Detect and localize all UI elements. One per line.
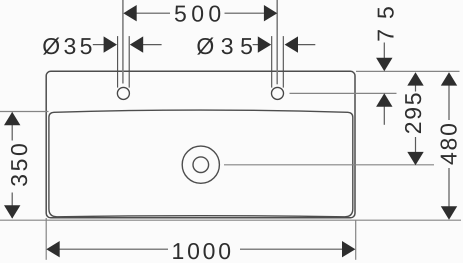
75 dim up arrowhead at tap axis bbox=[376, 93, 392, 106]
295 dimension line lower segment bbox=[415, 137, 417, 153]
500 dim left arrowhead bbox=[123, 5, 136, 21]
svg-text:75: 75 bbox=[372, 0, 398, 42]
left tap left tangent extension line bbox=[117, 36, 119, 88]
right tap centerline (500 dim extension) bbox=[276, 0, 278, 84]
1000 dim left vertical extension line bbox=[45, 218, 47, 260]
350 dim bottom arrowhead bbox=[4, 205, 20, 218]
svg-text:480: 480 bbox=[435, 121, 461, 165]
Ø35 right dim outer-left arrowhead bbox=[258, 36, 271, 52]
drain opening inner circle bbox=[193, 157, 209, 173]
1000 dim right arrowhead bbox=[342, 241, 355, 257]
basin inner bowl outline bbox=[49, 110, 353, 217]
basin outer outline (top view, 1000 x 480) bbox=[46, 71, 355, 218]
350 dim top arrowhead bbox=[4, 112, 20, 125]
svg-text:1000: 1000 bbox=[172, 238, 234, 263]
295 dim bottom arrowhead bbox=[407, 152, 423, 165]
Ø35 right dim tail right of tap bbox=[297, 44, 315, 46]
tap hole left (Ø35) bbox=[117, 87, 129, 99]
480 dimension line upper segment bbox=[448, 85, 450, 120]
front edge long extension line (350/480 dims) bbox=[0, 219, 461, 221]
1000 dimension line left segment bbox=[60, 248, 169, 250]
480 dim top arrowhead bbox=[441, 72, 457, 85]
1000 dim left arrowhead bbox=[46, 241, 59, 257]
right tap left tangent extension line bbox=[271, 36, 273, 88]
75 dim down arrowhead at rear edge bbox=[376, 58, 392, 71]
svg-text:350: 350 bbox=[6, 141, 32, 187]
295 dim top arrowhead bbox=[407, 72, 423, 85]
svg-text:Ø35: Ø35 bbox=[42, 33, 95, 59]
500 dim right arrowhead bbox=[264, 5, 277, 21]
75 dim tail below up-arrow bbox=[383, 106, 385, 125]
left tap right tangent extension line bbox=[128, 36, 130, 88]
bowl rear edge extension line (350 dim) bbox=[0, 111, 49, 113]
left tap centerline (500 dim extension) bbox=[122, 0, 124, 84]
480 dimension line lower segment bbox=[448, 168, 450, 207]
Ø35 left dim outer-left arrowhead bbox=[104, 36, 117, 52]
right tap right tangent extension line bbox=[282, 36, 284, 88]
350 dimension line upper segment bbox=[11, 113, 13, 141]
tap axis horizontal extension line (75 dim) bbox=[290, 92, 397, 94]
drain opening outer circle bbox=[182, 146, 219, 183]
svg-text:295: 295 bbox=[400, 91, 426, 134]
500 dimension line right segment bbox=[225, 12, 266, 14]
480 dim bottom arrowhead bbox=[441, 206, 457, 219]
75 dim leader from text down to arrow bbox=[383, 43, 385, 59]
tap hole right (Ø35) bbox=[272, 87, 284, 99]
Ø35 left dim leader from text bbox=[93, 44, 105, 46]
1000 dimension line right segment bbox=[240, 248, 342, 250]
svg-text:500: 500 bbox=[174, 1, 226, 27]
1000 dim right vertical extension line bbox=[355, 220, 357, 260]
Ø35 left dim tail right of tap bbox=[143, 44, 162, 46]
svg-text:Ø35: Ø35 bbox=[196, 33, 259, 59]
Ø35 left dim outer-right arrowhead bbox=[130, 36, 143, 52]
Ø35 right dim leader from text bbox=[253, 44, 259, 46]
295 dimension line upper segment bbox=[415, 85, 417, 92]
drain center extension line (295 dim) bbox=[224, 164, 434, 166]
500 dimension line left segment bbox=[135, 12, 170, 14]
350 dimension line lower segment bbox=[11, 193, 13, 219]
rear edge extension line (75/295/480 dims) bbox=[356, 70, 460, 72]
Ø35 right dim outer-right arrowhead bbox=[285, 36, 298, 52]
